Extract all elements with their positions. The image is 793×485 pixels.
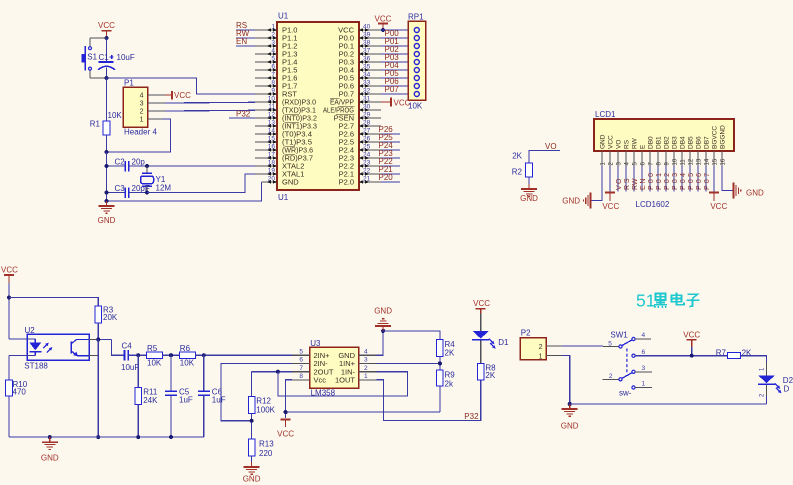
U2 phototransistor xyxy=(71,340,88,357)
junction GND node xyxy=(381,329,385,333)
junction C4/R5/R11 xyxy=(136,353,140,357)
wire S1 bottom branch xyxy=(90,70,107,78)
power VCC at switch node xyxy=(683,331,700,358)
wire P1.1 to R1 node xyxy=(107,119,171,152)
svg-text:R13: R13 xyxy=(259,440,274,449)
svg-text:R6: R6 xyxy=(180,344,191,353)
svg-text:15: 15 xyxy=(268,135,276,142)
svg-text:15: 15 xyxy=(712,158,718,165)
svg-text:VCC: VCC xyxy=(394,98,411,107)
wire D2 to ground rail xyxy=(570,403,767,405)
wire U3 1IN+ to divider xyxy=(377,362,440,364)
resistor R8 2K xyxy=(477,363,496,380)
wire U3 2OUT to R12 xyxy=(252,372,292,397)
svg-text:1uF: 1uF xyxy=(179,396,193,405)
wire P0.5 to RP1 / net label P05 xyxy=(381,69,408,78)
resistor R2 2K xyxy=(512,152,533,185)
svg-text:DB0: DB0 xyxy=(648,136,655,149)
U3 pin 8 Vcc xyxy=(292,373,326,384)
svg-text:36: 36 xyxy=(363,55,371,62)
svg-text:P02: P02 xyxy=(664,173,671,190)
wire LCD pin 7 net label P00 xyxy=(648,166,655,191)
junction rail GND stem xyxy=(48,435,52,439)
resistor R13 220 xyxy=(248,439,274,462)
LCD1 pin 11 DB4 xyxy=(680,136,687,166)
U1 pin 8 P1.7 xyxy=(255,79,297,90)
wire LCD pin 14 net label P07 xyxy=(704,166,711,191)
svg-text:P04: P04 xyxy=(680,173,687,190)
resistor pack RP1 10K xyxy=(408,13,426,111)
svg-text:10K: 10K xyxy=(108,111,123,120)
U1 pin 13 (INT1)P3.3 xyxy=(255,119,317,130)
wire LCD GND pin1 xyxy=(591,166,602,201)
svg-text:34: 34 xyxy=(363,71,371,78)
junction rail R11 xyxy=(136,435,140,439)
svg-text:VCC: VCC xyxy=(98,21,115,30)
svg-text:VO: VO xyxy=(545,142,557,151)
wire P2.6 net label P26 xyxy=(379,125,401,134)
logo glyph dian (electric char) xyxy=(672,292,685,305)
wire P0.7 to RP1 / net label P07 xyxy=(381,85,408,94)
svg-text:20K: 20K xyxy=(103,313,118,322)
junction R12/R13/feedback xyxy=(250,419,254,423)
net label VO wire xyxy=(529,142,560,163)
crystal Y1 12M xyxy=(141,166,172,193)
wire RST net xyxy=(107,78,256,94)
svg-text:24: 24 xyxy=(363,151,371,158)
wire LCD pin 12 net label P05 xyxy=(688,166,695,191)
U1 pin 2 P1.1 xyxy=(255,31,297,42)
wire R9 bottom to VCC node xyxy=(286,411,440,413)
wire P0.3 to RP1 / net label P03 xyxy=(381,53,408,62)
svg-text:C2: C2 xyxy=(115,158,126,167)
svg-text:37: 37 xyxy=(363,47,371,54)
svg-text:Header 4: Header 4 xyxy=(124,128,157,137)
svg-text:DB3: DB3 xyxy=(672,136,679,149)
LCD1 pin 13 DB6 xyxy=(696,136,703,166)
wire LCD pin 4 net label RS xyxy=(624,166,631,191)
power VCC at LCD pin15 xyxy=(709,166,727,211)
svg-text:P07: P07 xyxy=(385,85,400,94)
ground at R2 xyxy=(520,184,538,203)
wire VCC to RP1 xyxy=(381,29,408,31)
svg-text:2: 2 xyxy=(140,109,144,116)
svg-text:LCD1602: LCD1602 xyxy=(636,200,670,209)
net label EN xyxy=(236,37,255,46)
U1 pin 22 P2.1 xyxy=(339,167,381,178)
svg-text:100K: 100K xyxy=(256,406,275,415)
svg-text:5: 5 xyxy=(608,340,612,347)
wire GND node to R4 xyxy=(383,331,440,340)
logo glyph hei (black char) xyxy=(654,294,667,308)
wire P0.2 to RP1 / net label P02 xyxy=(381,45,408,54)
svg-text:35: 35 xyxy=(363,63,371,70)
resistor R10 470 xyxy=(6,380,28,437)
svg-text:2: 2 xyxy=(539,344,543,351)
svg-text:8: 8 xyxy=(271,79,275,86)
svg-text:GND: GND xyxy=(520,194,538,203)
U1 pin 31 EA/VPP xyxy=(330,95,381,106)
svg-text:D1: D1 xyxy=(498,338,509,347)
junction emitter rail xyxy=(96,435,100,439)
svg-text:D: D xyxy=(784,385,790,394)
LCD1 pin 2 VCC xyxy=(608,135,615,166)
svg-text:VCC: VCC xyxy=(375,15,392,24)
wire P0.1 to RP1 / net label P01 xyxy=(381,37,408,46)
svg-text:GND: GND xyxy=(243,475,261,484)
resistor R7 2K xyxy=(716,348,752,358)
U1 pin 6 P1.5 xyxy=(255,63,297,74)
LCD1 pin 12 DB5 xyxy=(688,136,695,166)
U1 pin 10 (RXD)P3.0 xyxy=(255,95,316,106)
svg-text:P01: P01 xyxy=(656,173,663,190)
LCD1 pin 7 DB0 xyxy=(648,136,655,166)
net label P32 (op-amp out) xyxy=(464,412,479,421)
svg-text:3: 3 xyxy=(364,357,368,364)
capacitor C6 1uF xyxy=(198,355,226,437)
wire U3 GND pin4 up xyxy=(377,331,384,355)
svg-text:30: 30 xyxy=(363,103,371,110)
svg-text:10: 10 xyxy=(268,95,276,102)
U3 pin 3 1IN+ xyxy=(339,357,377,368)
U1 pin 35 P0.4 xyxy=(339,63,381,74)
op-amp U1 body (8051 MCU) xyxy=(277,12,359,203)
wire bottom ground rail xyxy=(9,436,204,438)
U1 pin 3 P1.2 xyxy=(255,39,297,50)
U1 pin 28 P2.7 xyxy=(339,119,381,130)
svg-text:11: 11 xyxy=(680,159,686,166)
svg-text:DB7: DB7 xyxy=(704,136,711,149)
wire signal to C4 xyxy=(112,340,125,356)
U1 pin 19 XTAL1 xyxy=(255,167,304,178)
overline RD xyxy=(285,153,296,155)
svg-text:1: 1 xyxy=(140,117,144,124)
U1 pin 24 P2.3 xyxy=(339,151,381,162)
junction ground rail xyxy=(568,402,572,406)
svg-text:51: 51 xyxy=(636,291,655,311)
junction 2OUT branch xyxy=(276,370,280,374)
LCD1 pin 6 E xyxy=(640,144,647,166)
LCD1 pin 4 RS xyxy=(624,139,631,166)
overline WR xyxy=(285,145,296,147)
U1 pin 16 (WR)P3.6 xyxy=(255,143,313,154)
svg-text:P00: P00 xyxy=(648,173,655,190)
U1 pin 11 (TXD)P3.1 xyxy=(255,103,316,114)
svg-text:12: 12 xyxy=(268,111,276,118)
U1 pin 14 (T0)P3.4 xyxy=(255,127,312,138)
junction at VCC/S1/C1 xyxy=(105,36,109,40)
power VCC bottom-left xyxy=(1,266,18,284)
U1 pin 26 P2.5 xyxy=(339,135,381,146)
U1 pin 39 P0.0 xyxy=(339,31,381,42)
svg-text:16: 16 xyxy=(720,158,726,165)
svg-text:C4: C4 xyxy=(122,342,133,351)
wire LCD pin 11 net label P04 xyxy=(680,166,687,191)
svg-text:DB5: DB5 xyxy=(688,136,695,149)
U1 pin 18 XTAL2 xyxy=(255,159,304,170)
wire P2 pin2 to SW1 xyxy=(562,345,603,347)
svg-text:10K: 10K xyxy=(180,358,195,367)
svg-text:20: 20 xyxy=(268,175,276,182)
wire U2 collector to node xyxy=(89,339,112,341)
power VCC top-left xyxy=(98,21,115,38)
svg-text:P05: P05 xyxy=(688,173,695,190)
svg-text:DB2: DB2 xyxy=(664,136,671,149)
LCD1 pin 1 GND xyxy=(600,134,607,166)
ground left of LCD xyxy=(562,193,590,209)
svg-text:6: 6 xyxy=(299,357,303,364)
junction S1/C1 bottom xyxy=(105,76,109,80)
connector P2 xyxy=(520,328,562,360)
svg-text:28: 28 xyxy=(363,119,371,126)
svg-text:19: 19 xyxy=(268,167,276,174)
wire P0.6 to RP1 / net label P06 xyxy=(381,77,408,86)
svg-text:R2: R2 xyxy=(512,168,523,177)
U1 pin 20 GND xyxy=(262,175,300,186)
U1 pin 32 P0.7 xyxy=(339,87,381,98)
U1 pin 30 ALE/PROG xyxy=(323,103,381,114)
net label RS xyxy=(236,21,255,30)
svg-text:P07: P07 xyxy=(704,173,711,190)
overline PSEN xyxy=(336,113,355,115)
svg-text:LCD1: LCD1 xyxy=(595,110,616,119)
svg-text:RS: RS xyxy=(624,178,631,190)
svg-text:R7: R7 xyxy=(716,348,727,357)
svg-text:P32: P32 xyxy=(464,412,479,421)
svg-text:4: 4 xyxy=(271,47,275,54)
ground right of LCD xyxy=(734,183,765,199)
svg-text:8: 8 xyxy=(299,373,303,380)
wire P1.2 to TXD xyxy=(165,109,255,112)
svg-text:1OUT: 1OUT xyxy=(335,375,355,384)
svg-text:24K: 24K xyxy=(143,396,158,405)
svg-text:RW: RW xyxy=(632,137,639,149)
svg-text:27: 27 xyxy=(363,127,371,134)
wire U1 GND to rail xyxy=(107,182,262,201)
svg-text:26: 26 xyxy=(363,135,371,142)
svg-text:21: 21 xyxy=(363,175,371,182)
svg-text:U2: U2 xyxy=(25,326,36,335)
svg-text:sw-: sw- xyxy=(619,388,632,397)
wire P1.3 to RXD xyxy=(165,101,255,104)
wire XTAL1 xyxy=(147,174,255,193)
LCD1 pin 14 DB7 xyxy=(704,136,711,166)
wire U2 LED cathode xyxy=(9,356,35,380)
LED D2 xyxy=(758,367,793,404)
ground bottom-left xyxy=(41,437,59,462)
svg-text:VCC: VCC xyxy=(473,299,490,308)
wire LCD pin 13 net label P06 xyxy=(696,166,703,191)
svg-text:RW: RW xyxy=(632,178,639,190)
svg-text:10uF: 10uF xyxy=(121,363,139,372)
capacitor C5 1uF xyxy=(165,355,193,437)
U3 pin 5 2IN+ xyxy=(292,348,330,359)
LCD1 pin 16 BGGND xyxy=(720,125,727,166)
svg-text:GND: GND xyxy=(562,196,580,205)
U1 pin 23 P2.2 xyxy=(339,159,381,170)
svg-text:3: 3 xyxy=(642,365,646,372)
svg-text:10: 10 xyxy=(672,158,678,165)
svg-text:GND: GND xyxy=(282,178,299,187)
svg-text:C1: C1 xyxy=(99,53,110,62)
wire LCD BGGND pin16 xyxy=(722,166,734,191)
resistor R9 2k xyxy=(437,370,456,412)
logo glyph zi (child char) xyxy=(687,294,700,306)
U1 pin 1 P1.0 xyxy=(255,23,297,34)
svg-text:DB6: DB6 xyxy=(696,136,703,149)
svg-text:1uF: 1uF xyxy=(212,396,226,405)
svg-text:1: 1 xyxy=(642,381,646,388)
svg-text:BGGND: BGGND xyxy=(720,125,727,149)
svg-text:DB1: DB1 xyxy=(656,136,663,149)
svg-text:14: 14 xyxy=(704,158,710,165)
junction C2 left xyxy=(105,164,109,168)
svg-text:R12: R12 xyxy=(256,397,271,406)
svg-text:4: 4 xyxy=(140,93,144,100)
U1 pin 37 P0.2 xyxy=(339,47,381,58)
U1 pin 7 P1.6 xyxy=(255,71,297,82)
ground bottom-right xyxy=(561,404,579,431)
svg-text:GND: GND xyxy=(374,307,392,316)
U1 pin 40 VCC xyxy=(338,23,381,34)
op-amp U3 LM358 body xyxy=(310,339,359,398)
svg-text:4: 4 xyxy=(642,332,646,339)
svg-text:U1: U1 xyxy=(278,12,289,21)
resistor R5 10K xyxy=(147,344,180,367)
wire S1 top branch xyxy=(90,38,107,46)
U1 pin 15 (T1)P3.5 xyxy=(255,135,312,146)
resistor R6 10K xyxy=(179,344,292,367)
svg-text:29: 29 xyxy=(363,111,371,118)
svg-text:VCC: VCC xyxy=(683,331,700,340)
svg-text:23: 23 xyxy=(363,159,371,166)
svg-text:2: 2 xyxy=(271,31,275,38)
svg-text:Vcc: Vcc xyxy=(314,375,327,384)
wire LCD pin 9 net label P02 xyxy=(664,166,671,191)
svg-text:13: 13 xyxy=(268,119,276,126)
wire LCD pin 5 net label RW xyxy=(632,166,639,191)
svg-text:Y1: Y1 xyxy=(156,175,166,184)
overline PROG xyxy=(338,105,355,107)
svg-text:6: 6 xyxy=(642,349,646,356)
svg-text:40: 40 xyxy=(363,23,371,30)
wire U3 Vcc pin8 xyxy=(286,380,292,418)
svg-text:P20: P20 xyxy=(379,173,394,182)
svg-text:2: 2 xyxy=(364,365,368,372)
U1 pin 34 P0.5 xyxy=(339,71,381,82)
svg-text:VCC: VCC xyxy=(174,91,191,100)
power VCC at U1 pin40 xyxy=(375,15,392,33)
LED D1 xyxy=(472,331,509,364)
svg-text:32: 32 xyxy=(363,87,371,94)
svg-text:EN: EN xyxy=(236,37,247,46)
LCD1 pin 10 DB3 xyxy=(672,136,679,166)
resistor R4 2K xyxy=(437,340,456,370)
svg-text:ST188: ST188 xyxy=(24,362,48,371)
switch S1 xyxy=(82,46,98,71)
resistor R12 100K xyxy=(248,396,275,439)
wire P2.1 net label P21 xyxy=(379,165,401,174)
svg-text:R5: R5 xyxy=(147,344,158,353)
LCD1 pin 3 VO xyxy=(616,140,623,166)
wire LCD pin 6 net label EN xyxy=(640,166,647,191)
svg-text:39: 39 xyxy=(363,31,371,38)
capacitor C4 10uF xyxy=(121,342,147,373)
svg-text:U1: U1 xyxy=(278,193,289,202)
svg-text:11: 11 xyxy=(268,103,275,110)
wire P2.2 net label P22 xyxy=(379,157,401,166)
overline INT1 xyxy=(285,121,300,123)
wire 2OUT to 1IN- xyxy=(278,372,408,396)
wire U3 1OUT to P32/R8 xyxy=(377,380,481,421)
svg-text:2: 2 xyxy=(609,373,613,380)
net label RW xyxy=(236,29,255,38)
U1 pin 29 PSEN xyxy=(334,111,381,122)
U1 pin 21 P2.0 xyxy=(339,175,381,186)
svg-text:20p: 20p xyxy=(132,158,146,167)
svg-text:7: 7 xyxy=(299,365,303,372)
svg-text:VCC: VCC xyxy=(277,430,294,439)
svg-text:R1: R1 xyxy=(90,120,101,129)
wire SW1 pin6 to R7 xyxy=(635,355,727,357)
junction R5/R6/C5 xyxy=(169,353,173,357)
U1 pin 4 P1.3 xyxy=(255,47,297,58)
svg-text:14: 14 xyxy=(268,127,276,134)
svg-text:4: 4 xyxy=(364,348,368,355)
svg-text:1: 1 xyxy=(271,23,275,30)
logo text 51 (cyan) xyxy=(636,291,655,311)
overline EA xyxy=(330,97,340,99)
svg-text:GND: GND xyxy=(746,188,764,197)
svg-text:VCC: VCC xyxy=(710,202,727,211)
svg-text:38: 38 xyxy=(363,39,371,46)
overline INT0 xyxy=(285,113,300,115)
svg-text:16: 16 xyxy=(268,143,276,150)
svg-text:GND: GND xyxy=(600,134,607,149)
svg-text:VO: VO xyxy=(616,178,623,190)
switch SW1 xyxy=(603,331,652,398)
LCD1 pin 15 BGVCC xyxy=(712,126,719,166)
svg-text:3: 3 xyxy=(140,101,144,108)
ground (pointing up) above U3 xyxy=(374,307,392,331)
svg-text:P32: P32 xyxy=(236,110,251,119)
power VCC below U3 xyxy=(277,420,294,439)
junction crystal bottom xyxy=(145,191,149,195)
capacitor C2 20p xyxy=(107,158,148,172)
svg-text:5: 5 xyxy=(271,55,275,62)
svg-text:P1: P1 xyxy=(124,79,134,88)
wire P2.5 net label P25 xyxy=(379,133,401,142)
svg-text:RP1: RP1 xyxy=(408,13,424,22)
svg-text:P06: P06 xyxy=(696,173,703,190)
wire P2.4 net label P24 xyxy=(379,141,401,150)
LCD1 pin 5 RW xyxy=(632,137,639,166)
svg-text:12M: 12M xyxy=(156,184,172,193)
svg-text:18: 18 xyxy=(268,159,276,166)
svg-text:BGVCC: BGVCC xyxy=(712,126,719,149)
U2 LED emitter xyxy=(9,339,52,356)
svg-text:2K: 2K xyxy=(445,349,455,358)
ground GND top-left xyxy=(98,201,116,225)
svg-text:6: 6 xyxy=(271,63,275,70)
svg-text:9: 9 xyxy=(271,87,275,94)
capacitor C3 20pF xyxy=(107,184,150,198)
U3 pin 1 1OUT xyxy=(335,373,377,384)
svg-text:EN: EN xyxy=(640,179,647,191)
power VCC above D1 xyxy=(473,299,490,331)
svg-text:VCC: VCC xyxy=(602,202,619,211)
wire U2 emitter to ground xyxy=(89,340,99,438)
